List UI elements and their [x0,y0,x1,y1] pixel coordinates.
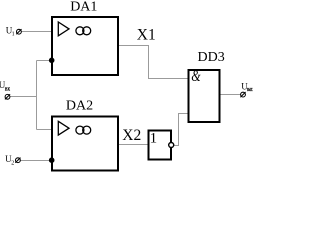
svg-text:DA2: DA2 [66,99,93,114]
svg-text:X1: X1 [137,27,156,44]
svg-text:DD3: DD3 [198,50,225,65]
svg-text:вх: вх [5,87,10,93]
svg-text:1: 1 [12,31,15,37]
svg-text:DA1: DA1 [70,0,97,15]
svg-text:1: 1 [150,131,158,147]
svg-text:X2: X2 [122,127,141,144]
svg-text:2: 2 [11,160,14,166]
svg-text:&: & [191,69,201,86]
svg-text:вых: вых [247,86,253,93]
